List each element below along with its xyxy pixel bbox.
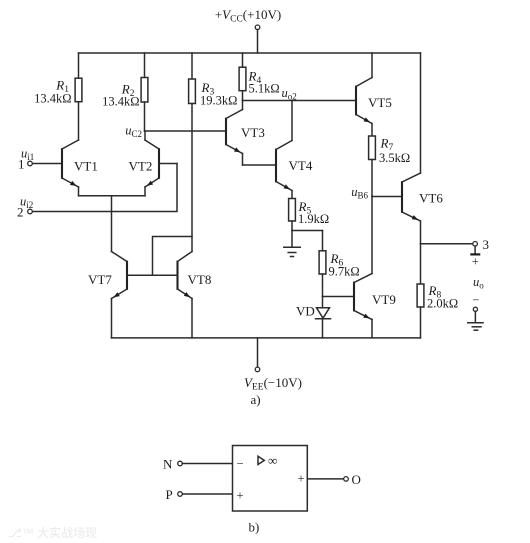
transistor VT2 — [145, 131, 159, 196]
svg-text:+: + — [298, 472, 305, 486]
wire input 2 run — [32, 164, 177, 212]
label b) — [249, 520, 260, 535]
svg-text:N: N — [163, 457, 173, 472]
label R4 value 5.1k — [248, 69, 280, 96]
wire emitter junction — [79, 195, 146, 197]
svg-text:13.4kΩ: 13.4kΩ — [34, 92, 71, 106]
label VT1 — [74, 159, 98, 174]
svg-text:3: 3 — [483, 237, 490, 252]
label R2 value 13.4k — [102, 82, 139, 109]
label terminal 3 — [483, 237, 490, 252]
svg-text:1.9kΩ: 1.9kΩ — [298, 212, 329, 226]
resistor R1 — [75, 53, 82, 140]
label VT6 — [419, 191, 443, 206]
wire top rail — [79, 52, 421, 54]
svg-text:VT2: VT2 — [129, 159, 153, 174]
transistor VT8 — [153, 252, 193, 338]
svg-text:19.3kΩ: 19.3kΩ — [200, 94, 237, 108]
resistor R5 — [289, 199, 296, 231]
label -VEE supply — [244, 375, 302, 393]
output plus marker — [470, 246, 480, 268]
op-amp minus input sign — [237, 457, 244, 471]
watermark — [8, 525, 97, 540]
label +VCC supply — [215, 7, 281, 25]
wire node uo2 — [243, 100, 357, 102]
op-amp box — [233, 446, 308, 512]
label VT3 — [241, 125, 265, 140]
wire VD anode — [322, 297, 324, 308]
label node uB6 — [351, 185, 368, 201]
svg-text:+VCC(+10V): +VCC(+10V) — [215, 7, 281, 25]
op-amp output plus sign — [298, 472, 305, 486]
terminal O — [344, 477, 349, 482]
svg-text:−: − — [237, 457, 244, 471]
label terminal 1 — [18, 157, 25, 172]
terminal P — [178, 492, 183, 497]
wire VT2 base stub — [159, 163, 177, 165]
wire input 1 to VT1 base — [32, 163, 62, 165]
label VT9 — [372, 292, 396, 307]
label O — [352, 472, 361, 487]
svg-text:VT5: VT5 — [368, 95, 392, 110]
transistor VT7 — [112, 252, 153, 338]
terminal 3 — [473, 242, 478, 247]
resistor R4 — [239, 53, 246, 101]
terminal 2 — [28, 209, 33, 214]
svg-text:b): b) — [249, 520, 260, 535]
transistor VT4 — [276, 101, 292, 199]
label N — [163, 457, 173, 472]
wire VT9 base — [323, 296, 355, 298]
svg-text:−: − — [472, 293, 479, 307]
wire VT6 emitter to R8 — [420, 244, 422, 284]
wire R5 to R6 — [292, 230, 323, 232]
label ui1 — [21, 147, 34, 163]
svg-text:3.5kΩ: 3.5kΩ — [379, 151, 410, 165]
op-amp plus input sign — [237, 489, 244, 503]
label VT2 — [129, 159, 153, 174]
label R8 value 2.0k — [427, 283, 458, 311]
label VT7 — [88, 272, 112, 287]
label VT5 — [368, 95, 392, 110]
wire node uB6 — [372, 196, 402, 198]
label R1 value 13.4k — [34, 78, 71, 106]
label VT8 — [188, 272, 212, 287]
resistor R8 — [417, 284, 424, 338]
resistor R3 — [189, 53, 196, 252]
output minus terminal — [472, 293, 479, 322]
terminal 1 — [28, 161, 33, 166]
svg-text:13.4kΩ: 13.4kΩ — [102, 95, 139, 109]
svg-text:⎇™ 大实战场现: ⎇™ 大实战场现 — [8, 525, 97, 540]
wire output node — [421, 243, 473, 245]
label R6 value 9.7k — [329, 251, 360, 279]
svg-text:VT3: VT3 — [241, 125, 265, 140]
wire node uC2 — [145, 130, 227, 132]
label a) — [251, 392, 261, 407]
label VD — [296, 304, 315, 319]
svg-text:+: + — [237, 489, 244, 503]
resistor R7 — [369, 136, 376, 197]
svg-text:a): a) — [251, 392, 261, 407]
label P — [166, 487, 173, 502]
transistor VT6 — [402, 53, 421, 244]
svg-text:VT9: VT9 — [372, 292, 396, 307]
label node uC2 — [125, 124, 142, 140]
svg-text:VT6: VT6 — [419, 191, 443, 206]
svg-text:O: O — [352, 472, 361, 487]
transistor VT5 — [356, 53, 372, 136]
wire VT8 base-collector tie — [153, 237, 193, 276]
op-amp triangle gain symbol — [258, 453, 277, 468]
diode VD — [316, 308, 331, 338]
wire N input — [182, 463, 233, 465]
wire VT3 emitter to VT4 base — [243, 164, 277, 166]
svg-text:P: P — [166, 487, 173, 502]
wire VCC feed — [257, 30, 259, 53]
svg-text:9.7kΩ: 9.7kΩ — [329, 265, 360, 279]
resistor R2 — [141, 53, 148, 131]
label VT4 — [289, 158, 313, 173]
terminal -VEE — [255, 367, 260, 372]
wire output O — [308, 478, 344, 480]
svg-text:VT1: VT1 — [74, 159, 98, 174]
resistor R6 — [319, 231, 326, 297]
svg-text:+: + — [472, 255, 479, 269]
ground (output) — [468, 323, 483, 331]
label node uo2 — [282, 86, 297, 102]
label R5 value 1.9k — [298, 199, 330, 226]
wire tail to VT7 — [111, 196, 113, 252]
label ui2 — [20, 195, 33, 211]
label terminal 2 — [17, 205, 24, 220]
svg-text:VT4: VT4 — [289, 158, 313, 173]
label uo — [473, 275, 484, 291]
terminal +VCC — [255, 25, 260, 30]
ground (below R5) — [284, 231, 301, 257]
svg-text:2.0kΩ: 2.0kΩ — [427, 297, 458, 311]
transistor VT3 — [226, 101, 243, 166]
svg-text:5.1kΩ: 5.1kΩ — [249, 82, 280, 96]
terminal N — [178, 461, 183, 466]
transistor VT1 — [62, 140, 79, 196]
svg-text:VT7: VT7 — [88, 272, 112, 287]
wire P input — [182, 493, 233, 495]
svg-text:∞: ∞ — [268, 453, 277, 468]
wire bottom rail — [112, 337, 421, 339]
label R3 value 19.3k — [200, 80, 237, 108]
label R7 value 3.5k — [379, 136, 410, 166]
svg-text:VT8: VT8 — [188, 272, 212, 287]
transistor VT9 — [354, 197, 372, 338]
svg-text:VD: VD — [296, 304, 315, 319]
wire VEE feed — [257, 338, 259, 367]
